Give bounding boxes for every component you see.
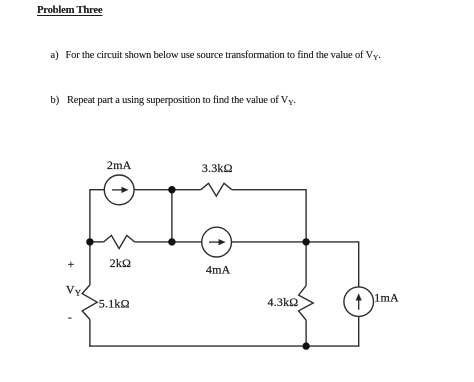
arrow of 4mA source — [209, 240, 224, 244]
wire middle rail segment between 2k and 4mA — [135, 241, 202, 243]
arrow of 1mA source (up) — [357, 295, 361, 310]
current source I3 1mA circle — [344, 287, 374, 317]
resistor R2 2k zigzag — [104, 235, 135, 248]
wire far right vertical upper — [358, 241, 360, 287]
svg-text:2kΩ: 2kΩ — [110, 256, 132, 270]
node dot middle center — [168, 238, 175, 245]
arrow of 2mA source — [112, 188, 127, 192]
svg-text:VY: VY — [66, 283, 82, 298]
wire middle rail left segment — [90, 241, 104, 243]
wire far right vertical lower — [358, 317, 360, 347]
svg-text:5.1kΩ: 5.1kΩ — [99, 297, 130, 311]
wire middle rail right extension — [306, 241, 359, 243]
svg-text:2mA: 2mA — [107, 158, 132, 172]
item a) text — [51, 50, 59, 61]
wire left vertical lower — [89, 320, 91, 347]
wire left vertical upper — [89, 189, 91, 242]
item b) text — [51, 95, 60, 106]
wire top rail middle segment — [134, 189, 201, 191]
wire top rail left segment — [90, 189, 104, 191]
resistor R4 4.3k zigzag — [299, 286, 314, 321]
wire right vertical upper — [305, 189, 307, 242]
svg-text:+: + — [68, 257, 75, 271]
wire 4.3k branch lower — [305, 320, 307, 346]
node dot bottom right — [302, 342, 309, 349]
wire top rail right segment — [232, 189, 306, 191]
current source I2 4mA circle — [202, 227, 232, 257]
node dot top center — [168, 186, 175, 193]
node dot middle right — [302, 238, 309, 245]
svg-text:4mA: 4mA — [206, 263, 231, 277]
heading: Problem Three — [37, 4, 102, 16]
svg-text:3.3kΩ: 3.3kΩ — [202, 161, 233, 175]
wire 4.3k branch upper — [305, 242, 307, 286]
wire center vertical (node A column) — [171, 190, 173, 242]
resistor R1 3.3k zigzag — [201, 183, 232, 196]
wire left vertical between node and 5.1k — [89, 242, 91, 285]
node dot left middle — [86, 238, 93, 245]
svg-text:1mA: 1mA — [374, 291, 399, 305]
current source I1 2mA circle — [104, 175, 134, 205]
resistor R3 5.1k zigzag — [82, 285, 97, 320]
svg-text:-: - — [68, 310, 72, 324]
wire bottom rail — [89, 345, 359, 347]
wire middle rail segment between 4mA and node — [232, 241, 307, 243]
svg-text:4.3kΩ: 4.3kΩ — [267, 295, 298, 309]
